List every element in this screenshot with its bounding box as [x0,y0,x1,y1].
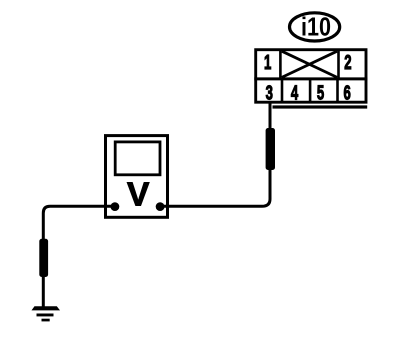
thick wire section (sleeve) on ground wire [39,239,48,277]
wire voltmeter - terminal to ground [43,206,115,307]
svg-text:2: 2 [344,50,351,74]
svg-text:6: 6 [343,80,350,104]
svg-text:4: 4 [291,80,299,104]
svg-text:V: V [127,177,150,214]
thick wire section (sleeve) on pin-3 wire [266,128,275,170]
svg-text:3: 3 [266,80,273,104]
ground [32,306,61,321]
svg-text:i10: i10 [301,12,331,42]
svg-text:1: 1 [264,50,272,74]
voltmeter V1 [106,136,168,218]
blocked cell X (unused pins) [282,51,337,77]
svg-text:5: 5 [317,80,325,104]
wire pin 3 to voltmeter + terminal [160,101,270,206]
connector label i10 [290,12,340,42]
connector i10 housing [254,50,367,109]
